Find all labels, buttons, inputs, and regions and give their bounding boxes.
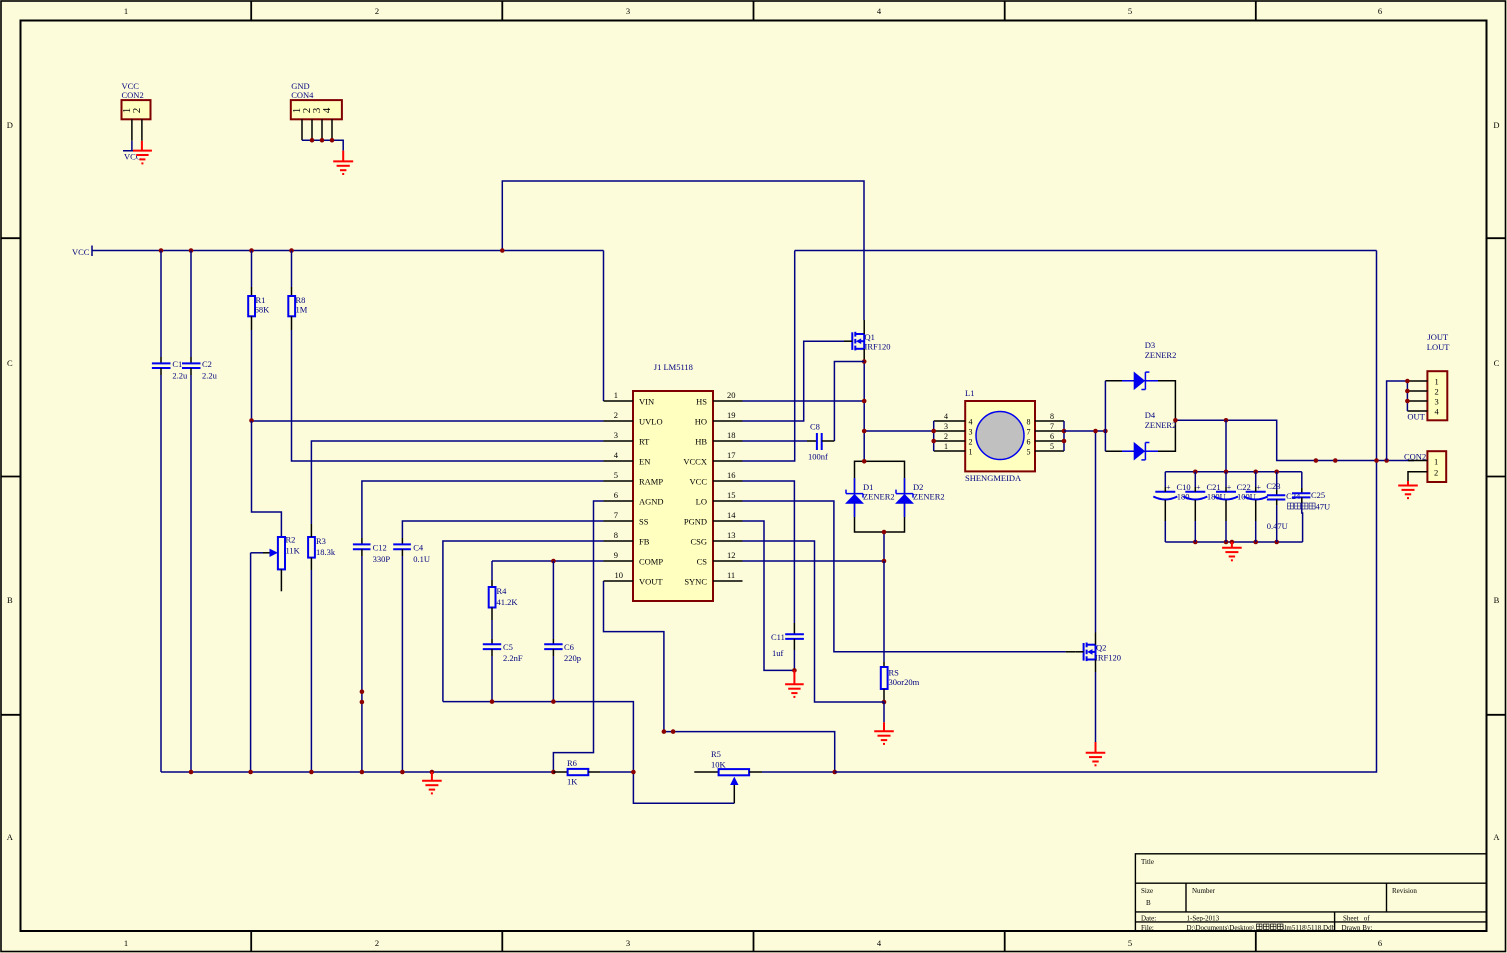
svg-text:SYNC: SYNC (684, 577, 707, 587)
svg-text:D4: D4 (1145, 410, 1156, 420)
svg-text:1: 1 (124, 6, 128, 16)
svg-text:68K: 68K (255, 305, 271, 315)
svg-text:30or20m: 30or20m (889, 677, 920, 687)
resistor R3 (308, 537, 315, 558)
wire output rail right (835, 251, 1377, 773)
svg-text:18.3k: 18.3k (316, 547, 336, 557)
svg-text:RS: RS (889, 668, 900, 678)
svg-text:R3: R3 (316, 536, 326, 546)
svg-text:C5: C5 (503, 642, 513, 652)
svg-text:Sheet of: Sheet of (1343, 915, 1370, 923)
capacitor C25 (1301, 472, 1303, 488)
svg-text:C21: C21 (1207, 482, 1221, 492)
wire Q2 drain up (1095, 431, 1097, 633)
wire VCC rail (92, 250, 604, 252)
svg-text:6: 6 (1378, 938, 1382, 948)
svg-text:5: 5 (1128, 6, 1132, 16)
svg-text:C22: C22 (1237, 482, 1251, 492)
svg-text:8: 8 (1027, 418, 1031, 427)
wire VOUT down to feedback (604, 581, 835, 772)
svg-text:3: 3 (1435, 397, 1439, 407)
wire L1 right tie (1063, 421, 1065, 451)
svg-text:1: 1 (614, 390, 618, 400)
capacitor C5 (491, 639, 493, 644)
wire R1 to R2 (252, 421, 282, 537)
svg-text:C12: C12 (373, 543, 387, 553)
svg-text:VCC: VCC (72, 247, 90, 257)
transistor Q1 IRF120 (852, 332, 864, 351)
svg-text:1: 1 (1434, 457, 1438, 467)
wire Q2 source to ground (1095, 672, 1097, 742)
POWERCONN (121, 81, 353, 174)
svg-text:Number: Number (1192, 887, 1216, 895)
LEFTNET (72, 181, 1377, 803)
svg-text:Title: Title (1141, 858, 1154, 866)
wire HO to Q1 gate (743, 341, 845, 421)
resistor R1 (251, 251, 253, 288)
wire output junctions (1314, 458, 1319, 463)
svg-text:0.47U: 0.47U (1267, 521, 1288, 531)
svg-text:D: D (7, 120, 13, 130)
wire CSG down (743, 541, 885, 702)
pin stubs right (713, 401, 743, 581)
svg-text:VOUT: VOUT (639, 577, 663, 587)
svg-text:3: 3 (614, 430, 618, 440)
svg-text:2: 2 (1434, 468, 1438, 478)
pin names right (683, 397, 707, 587)
svg-text:SS: SS (639, 517, 649, 527)
svg-text:Size: Size (1141, 887, 1153, 895)
svg-text:11K: 11K (286, 546, 301, 556)
svg-text:ZENER2: ZENER2 (1145, 350, 1177, 360)
wire cap bank top rail (1165, 471, 1302, 473)
wire JOUT tie (1387, 381, 1408, 461)
svg-text:JOUT: JOUT (1427, 332, 1449, 342)
svg-text:AGND: AGND (639, 497, 664, 507)
svg-text:R5: R5 (711, 749, 721, 759)
svg-text:2: 2 (375, 6, 379, 16)
svg-text:B: B (1146, 899, 1151, 907)
pin stubs left (604, 401, 634, 581)
wire VCC rail to VIN (603, 251, 605, 402)
svg-text:2: 2 (375, 938, 379, 948)
svg-text:+: + (1256, 483, 1261, 492)
wire CS (743, 560, 885, 562)
svg-text:SHENGMEIDA: SHENGMEIDA (965, 473, 1022, 483)
svg-text:LOUT: LOUT (1427, 342, 1450, 352)
svg-text:OUT: OUT (1407, 412, 1425, 422)
svg-text:HO: HO (695, 417, 707, 427)
svg-text:B: B (7, 595, 13, 605)
diode D2 ZENER2 (896, 478, 913, 517)
L1 pin stubs left (934, 421, 966, 451)
svg-text:C2: C2 (202, 359, 212, 369)
capacitor C2 (190, 251, 192, 358)
svg-text:9: 9 (614, 550, 618, 560)
svg-text:RAMP: RAMP (639, 477, 663, 487)
wire cap bank bottom rail (1165, 541, 1302, 543)
ground (cap bank) (1222, 542, 1242, 560)
svg-text:VCC: VCC (124, 152, 142, 162)
L1 pin numbers outside (944, 412, 1054, 451)
svg-text:2.2nF: 2.2nF (503, 653, 523, 663)
svg-text:+: + (1166, 483, 1171, 492)
svg-text:VIN: VIN (639, 397, 654, 407)
svg-text:A: A (7, 832, 14, 842)
ground (CON4) (333, 151, 353, 174)
svg-text:FB: FB (639, 537, 650, 547)
svg-text:12: 12 (727, 550, 736, 560)
svg-text:C8: C8 (810, 422, 820, 432)
svg-text:L1: L1 (965, 388, 974, 398)
IC (604, 362, 743, 601)
svg-text:1K: 1K (567, 777, 578, 787)
svg-text:HS: HS (696, 397, 707, 407)
resistor R6 (553, 771, 567, 773)
diode D1 ZENER2 (846, 478, 863, 517)
svg-text:2: 2 (131, 108, 143, 114)
svg-text:10K: 10K (711, 759, 727, 769)
wire RT to R3 (311, 441, 603, 524)
svg-text:C: C (1494, 358, 1500, 368)
wire SS to C4 (402, 521, 603, 538)
svg-text:2.2u: 2.2u (202, 371, 218, 381)
svg-text:R2: R2 (286, 535, 296, 545)
capacitor C24 (1276, 472, 1278, 490)
CJK glyph placeholders 普通电容 (1288, 503, 1316, 509)
wire Q1 source to C8 (834, 362, 864, 442)
svg-text:15: 15 (727, 490, 736, 500)
capacitor C10 (1164, 472, 1166, 487)
svg-text:17: 17 (727, 450, 736, 460)
svg-text:5: 5 (1027, 448, 1031, 457)
TITLEBLOCK (1135, 854, 1486, 932)
wire RAMP to C12 (362, 481, 604, 538)
svg-text:18: 18 (727, 430, 736, 440)
node VCC rail junctions (159, 248, 164, 253)
svg-text:ZENER2: ZENER2 (913, 492, 945, 502)
pins 1-4 of CON4 (301, 119, 303, 140)
svg-text:14: 14 (727, 510, 736, 520)
svg-text:100nf: 100nf (808, 452, 828, 462)
svg-text:C4: C4 (413, 543, 424, 553)
svg-text:1: 1 (944, 442, 948, 451)
svg-text:D: D (1493, 120, 1499, 130)
potentiometer R2 (278, 537, 285, 569)
wire riser to cap bank (1225, 420, 1227, 472)
pin numbers right (727, 390, 736, 580)
ground (C11) (785, 670, 804, 697)
wire D1D2 bottom to CS (883, 532, 885, 561)
svg-text:C1: C1 (172, 359, 182, 369)
svg-text:5: 5 (1050, 442, 1054, 451)
svg-text:3: 3 (626, 938, 630, 948)
capacitor C23 (1255, 472, 1257, 487)
diode network D1 D2 box (855, 461, 905, 532)
svg-text:RT: RT (639, 437, 650, 447)
ground (CON2 pin2) (133, 141, 152, 164)
wire CON4 tie bar (302, 140, 343, 150)
svg-text:\lm5118\5118.Ddb: \lm5118\5118.Ddb (1283, 924, 1336, 932)
wire R8 to EN (292, 330, 604, 461)
wire top loop to Q1 drain (502, 181, 864, 320)
wire L1 primary feed (864, 430, 934, 432)
ground (CON2 output) (1398, 481, 1418, 498)
svg-text:16: 16 (727, 470, 736, 480)
junction dots CON4 (310, 138, 315, 143)
wire VCCX up to VCC rail (743, 251, 795, 462)
svg-text:VCCX: VCCX (683, 457, 707, 467)
svg-text:3: 3 (944, 422, 948, 431)
svg-text:UVLO: UVLO (639, 417, 663, 427)
svg-text:Date:: Date: (1141, 915, 1156, 923)
svg-text:8: 8 (614, 530, 618, 540)
svg-text:41.2K: 41.2K (497, 597, 519, 607)
capacitor C22 (1225, 472, 1227, 487)
capacitor C1 (160, 251, 162, 358)
svg-text:2: 2 (969, 438, 973, 447)
svg-text:19: 19 (727, 410, 736, 420)
svg-text:220p: 220p (564, 653, 581, 663)
svg-text:1uf: 1uf (772, 648, 784, 658)
svg-text:B: B (1494, 595, 1500, 605)
svg-text:Q2: Q2 (1096, 643, 1106, 653)
svg-text:LO: LO (696, 497, 707, 507)
wire VCC pin to C11 (743, 481, 795, 623)
wire L1 left tie (933, 421, 935, 451)
resistor R8 (291, 251, 293, 288)
wire FB down (443, 541, 604, 702)
svg-text:20: 20 (727, 390, 736, 400)
pin 1 of CON2 (131, 119, 133, 141)
svg-text:File:: File: (1141, 924, 1154, 932)
wire PGND down (743, 521, 795, 670)
svg-text:6: 6 (614, 490, 618, 500)
svg-text:IRF120: IRF120 (1095, 653, 1121, 663)
svg-text:C: C (7, 358, 13, 368)
svg-text:11: 11 (727, 570, 735, 580)
svg-text:4: 4 (944, 412, 948, 421)
capacitor C6 (552, 561, 554, 639)
svg-text:2: 2 (614, 410, 618, 420)
svg-text:ZENER2: ZENER2 (1145, 420, 1177, 430)
svg-text:330P: 330P (373, 554, 391, 564)
svg-text:7: 7 (1050, 422, 1054, 431)
power port VCC (CON2 pin1) (131, 141, 133, 151)
svg-text:ZENER2: ZENER2 (863, 492, 895, 502)
svg-text:C10: C10 (1177, 482, 1191, 492)
svg-text:2: 2 (1435, 387, 1439, 397)
svg-text:3: 3 (969, 428, 973, 437)
svg-text:R1: R1 (256, 295, 266, 305)
potentiometer R5 (694, 771, 718, 773)
wire COMP to R4 (492, 560, 604, 562)
svg-text:IRF120: IRF120 (865, 342, 891, 352)
svg-text:R8: R8 (296, 295, 306, 305)
svg-text:CSG: CSG (690, 537, 707, 547)
diode D3 ZENER2 (1122, 372, 1158, 389)
wire HS (743, 400, 865, 402)
ground (left rail) (422, 772, 442, 793)
svg-text:R4: R4 (497, 586, 508, 596)
CJK glyph placeholders for file path (1257, 924, 1284, 930)
svg-text:0.1U: 0.1U (413, 554, 430, 564)
svg-text:1: 1 (969, 448, 973, 457)
diode network D3 D4 box (1105, 381, 1175, 451)
svg-text:+: + (1196, 483, 1201, 492)
svg-text:1: 1 (1435, 377, 1439, 387)
svg-text:PGND: PGND (684, 517, 707, 527)
svg-text:EN: EN (639, 457, 650, 467)
svg-text:VCC: VCC (690, 477, 708, 487)
svg-text:J1 LM5118: J1 LM5118 (654, 362, 693, 372)
svg-text:3: 3 (626, 6, 630, 16)
svg-text:CON4: CON4 (291, 90, 314, 100)
svg-text:2.2u: 2.2u (172, 371, 188, 381)
svg-text:6: 6 (1378, 6, 1382, 16)
svg-text:7: 7 (614, 510, 618, 520)
wire RS bottom to ground (883, 702, 885, 722)
wire VCC rail right segment (795, 250, 1377, 252)
MIDNET (743, 251, 1377, 766)
svg-text:D1: D1 (863, 482, 873, 492)
svg-text:D2: D2 (913, 482, 923, 492)
svg-text:2: 2 (944, 432, 948, 441)
resistor RS (883, 561, 885, 662)
capacitor C4 (401, 538, 403, 544)
pin 2 of CON2 (141, 119, 143, 141)
svg-text:C23: C23 (1266, 481, 1280, 491)
svg-text:COMP: COMP (639, 557, 663, 567)
ground (Q2) (1086, 742, 1106, 765)
wire LO to Q2 gate (743, 501, 1066, 652)
wire UVLO to R1 column (252, 420, 604, 422)
svg-text:180: 180 (1177, 492, 1190, 502)
capacitor C8 (743, 440, 808, 442)
wire FB bottom rail (443, 702, 734, 804)
L1 pin numbers inside (969, 418, 1031, 457)
wire Q1 source down (863, 362, 865, 462)
svg-text:Revision: Revision (1392, 887, 1417, 895)
node stray dots on C12 column (360, 689, 365, 694)
capacitor C11 (793, 623, 795, 634)
svg-text:C25: C25 (1311, 490, 1325, 500)
svg-text:5: 5 (1128, 938, 1132, 948)
ground (RS) (874, 722, 894, 744)
svg-text:C6: C6 (564, 642, 574, 652)
transistor Q2 IRF120 (1084, 643, 1096, 662)
svg-text:Q1: Q1 (865, 332, 875, 342)
svg-text:+: + (1227, 483, 1232, 492)
svg-text:5: 5 (614, 470, 618, 480)
resistor R4 (491, 561, 493, 580)
pin numbers left (614, 390, 623, 580)
svg-text:6: 6 (1027, 438, 1031, 447)
diode D4 ZENER2 (1122, 443, 1158, 460)
svg-text:1M: 1M (296, 305, 308, 315)
svg-text:Drawn By:: Drawn By: (1342, 924, 1373, 932)
RIGHTNET (931, 332, 1450, 560)
IC U1 J1 LM5118 body (633, 391, 713, 601)
svg-text:D:\Documents\Desktop\: D:\Documents\Desktop\ (1187, 924, 1255, 932)
svg-text:6: 6 (1050, 432, 1054, 441)
svg-text:8: 8 (1050, 412, 1054, 421)
wire L1 to D3D4 (1064, 430, 1105, 432)
svg-text:1-Sep-2013: 1-Sep-2013 (1187, 915, 1220, 923)
svg-text:R6: R6 (567, 758, 577, 768)
svg-text:HB: HB (695, 437, 707, 447)
wire D3D4 output (1175, 420, 1414, 460)
svg-text:10: 10 (615, 570, 624, 580)
svg-text:D3: D3 (1145, 340, 1155, 350)
svg-text:CS: CS (697, 557, 708, 567)
svg-text:1: 1 (124, 938, 128, 948)
svg-text:4: 4 (321, 107, 333, 113)
L1 pin stubs right (1035, 421, 1064, 451)
capacitor C21 (1194, 472, 1196, 487)
svg-text:47U: 47U (1316, 502, 1331, 512)
svg-text:13: 13 (727, 530, 736, 540)
svg-text:4: 4 (969, 418, 973, 427)
wire ground rail left (161, 771, 553, 773)
svg-text:CON2: CON2 (122, 90, 144, 100)
svg-text:C11: C11 (771, 632, 785, 642)
svg-text:7: 7 (1027, 428, 1031, 437)
wire AGND down (553, 501, 603, 772)
capacitor C12 (361, 538, 363, 544)
svg-text:A: A (1493, 832, 1500, 842)
pin names left (639, 397, 664, 587)
